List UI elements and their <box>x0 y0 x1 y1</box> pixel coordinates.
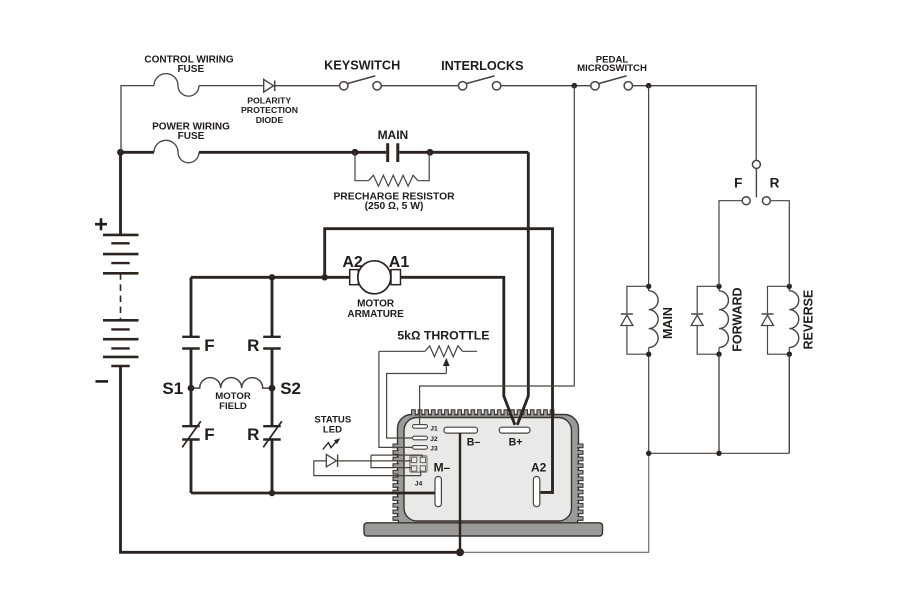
junction main coil feed node <box>646 83 652 89</box>
junction return bus main <box>646 451 651 456</box>
svg-text:B–: B– <box>467 436 481 448</box>
inductor MAIN coil <box>649 291 658 348</box>
contact R reverse top-right <box>263 337 281 349</box>
wire fuse to polarity diode <box>199 85 264 87</box>
svg-text:R: R <box>247 425 259 444</box>
terminal A2 of controller <box>533 477 539 507</box>
wire battery junction to power fuse <box>121 151 155 154</box>
svg-text:S2: S2 <box>280 379 301 398</box>
svg-text:F: F <box>734 176 742 191</box>
wire REVERSE coil bottom <box>788 348 790 454</box>
junction armature A2 node <box>322 274 328 280</box>
wire power fuse to main contactor <box>199 151 386 154</box>
wire coil return bus <box>649 354 790 453</box>
junction MAIN coil top <box>646 284 651 289</box>
fuse power wiring <box>154 140 199 162</box>
contact F forward top-left <box>182 337 200 349</box>
junction REVERSE coil top <box>787 284 792 289</box>
wire main contactor down to B+ <box>517 152 528 425</box>
wire control branch vertical <box>121 86 154 153</box>
wire main contactor to B+ drop <box>399 151 528 154</box>
svg-text:J2: J2 <box>430 436 438 443</box>
wire armature A1 to B+ <box>401 277 515 425</box>
diode across REVERSE coil <box>762 286 790 354</box>
svg-text:(250 Ω, 5 W): (250 Ω, 5 W) <box>365 201 424 212</box>
junction precharge right <box>427 149 434 156</box>
terminal B+ <box>499 427 530 433</box>
svg-text:M–: M– <box>434 461 451 475</box>
junction return bus forward <box>716 451 721 456</box>
junction FORWARD coil bottom <box>716 352 721 357</box>
junction pedal node A <box>572 83 578 89</box>
contactor MAIN tips <box>388 143 398 162</box>
LED emission arrows <box>323 438 341 449</box>
junction REVERSE coil bottom <box>787 352 792 357</box>
wire MAIN coil bottom <box>648 348 650 454</box>
junction field bottom right <box>269 490 275 496</box>
terminal J3 <box>413 446 428 450</box>
wire field bottom to M- <box>191 492 435 495</box>
svg-text:KEYSWITCH: KEYSWITCH <box>324 59 400 73</box>
svg-text:MAIN: MAIN <box>378 128 409 142</box>
wire FORWARD coil bottom <box>718 348 720 454</box>
wire interlocks to pedal microswitch <box>501 85 591 87</box>
interlock switch SW2 <box>458 76 500 90</box>
terminal J2 <box>413 436 428 440</box>
svg-text:J3: J3 <box>430 445 438 452</box>
svg-text:DIODE: DIODE <box>256 115 284 125</box>
junction S1 <box>188 385 195 392</box>
wire FORWARD coil top feed <box>718 286 720 291</box>
svg-text:R: R <box>247 336 259 355</box>
svg-text:F: F <box>204 336 214 355</box>
junction field top right vertical <box>269 274 275 280</box>
wire pedal node to J1 <box>420 86 575 425</box>
resistor R1 precharge loop <box>355 152 429 186</box>
wire keyswitch to interlocks <box>381 85 458 87</box>
wire pedal switch to F/R selector <box>633 86 757 161</box>
svg-text:ARMATURE: ARMATURE <box>347 309 404 320</box>
contact F normally closed bottom-left <box>182 421 201 447</box>
svg-text:MAIN: MAIN <box>661 307 675 339</box>
wire battery negative down to bottom rail <box>121 366 461 552</box>
svg-text:FUSE: FUSE <box>177 64 204 75</box>
wire field left vertical mid <box>190 349 193 427</box>
svg-text:S1: S1 <box>162 379 183 398</box>
wire armature A2 to controller A2 <box>325 229 553 493</box>
svg-text:A2: A2 <box>531 461 547 475</box>
svg-text:MOTOR: MOTOR <box>357 299 395 310</box>
svg-text:A2: A2 <box>342 254 363 271</box>
diode across MAIN coil <box>621 286 649 354</box>
pedal microswitch SW3 <box>591 76 633 90</box>
wire B- to bottom rail <box>459 433 461 552</box>
svg-text:PROTECTION: PROTECTION <box>241 105 298 115</box>
battery + label <box>95 218 107 230</box>
junction precharge left <box>352 149 359 156</box>
svg-text:5kΩ THROTTLE: 5kΩ THROTTLE <box>397 329 489 343</box>
svg-text:FIELD: FIELD <box>219 401 247 412</box>
wire F throw to forward coil <box>719 201 742 287</box>
svg-text:LED: LED <box>323 424 342 435</box>
terminal J1 <box>413 425 428 429</box>
LED D2 status <box>326 454 337 467</box>
terminal B- <box>444 427 478 433</box>
contact R normally closed bottom-right <box>263 421 282 447</box>
wire LED cathode to J4 <box>338 460 412 462</box>
wire field right vertical top <box>271 277 274 337</box>
battery - label <box>96 380 109 383</box>
diode across FORWARD coil <box>691 286 719 354</box>
inductor REVERSE coil <box>789 291 798 348</box>
junction battery positive node <box>117 149 124 156</box>
battery B1 <box>103 235 139 366</box>
connector J4 <box>410 456 427 473</box>
wire LED anode loop to J4 <box>314 461 421 476</box>
svg-text:J1: J1 <box>430 426 438 433</box>
wire battery positive to junction <box>119 152 122 235</box>
svg-text:REVERSE: REVERSE <box>802 290 816 350</box>
svg-text:J4: J4 <box>415 480 423 487</box>
inductor FORWARD coil <box>719 291 728 348</box>
svg-text:F: F <box>204 425 214 444</box>
junction B- on rail <box>456 548 464 556</box>
connector shell plug <box>371 455 422 468</box>
potentiometer 5k throttle <box>379 346 477 357</box>
controller base plate <box>364 523 603 536</box>
wire bottom rail control section <box>460 453 649 552</box>
wire MAIN coil top feed <box>648 286 650 291</box>
keyswitch SW1 <box>340 76 382 90</box>
wire throttle end to J3 <box>379 351 413 447</box>
wire throttle wiper to J2 <box>387 374 447 439</box>
wire field left vertical top <box>190 277 193 337</box>
svg-text:A1: A1 <box>389 254 410 271</box>
junction FORWARD coil top <box>716 284 721 289</box>
svg-text:FORWARD: FORWARD <box>731 287 745 351</box>
wire field bridge top <box>191 276 350 279</box>
svg-text:FUSE: FUSE <box>178 131 205 142</box>
svg-text:R: R <box>770 176 780 191</box>
wire diode to keyswitch <box>275 85 340 87</box>
fuse control wiring <box>154 74 199 97</box>
wire REVERSE coil top feed <box>788 286 790 291</box>
diode D1 polarity protection <box>264 79 275 92</box>
svg-text:MICROSWITCH: MICROSWITCH <box>577 63 647 74</box>
wire field left vertical bottom <box>190 440 193 494</box>
wire field right vertical mid <box>271 349 274 427</box>
controller U1 body <box>393 410 583 531</box>
throttle wiper arrow <box>443 358 450 374</box>
svg-text:B+: B+ <box>509 436 523 448</box>
inductor motor field winding <box>191 378 272 389</box>
svg-text:INTERLOCKS: INTERLOCKS <box>441 59 523 73</box>
wire field right vertical bottom <box>271 440 274 494</box>
wire R throw to reverse coil <box>771 201 790 287</box>
junction S2 <box>269 385 276 392</box>
junction MAIN coil bottom <box>646 352 651 357</box>
terminal M- <box>435 477 441 507</box>
forward/reverse selector switch <box>742 160 770 204</box>
motor armature M1 <box>350 261 401 294</box>
wire main coil feed from pedal node <box>648 86 650 287</box>
